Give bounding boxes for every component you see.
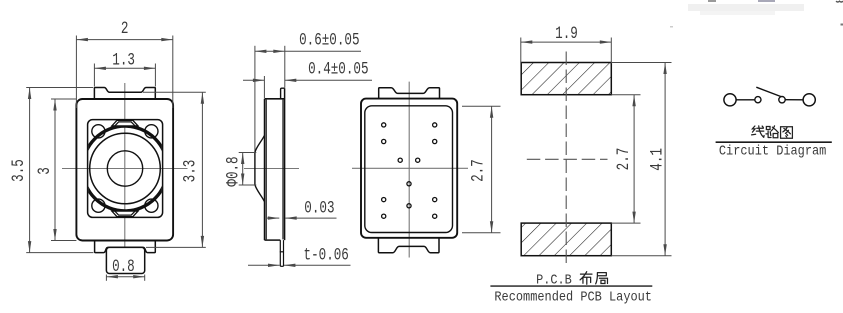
svg-text:Recommended PCB Layout: Recommended PCB Layout bbox=[494, 289, 652, 305]
svg-text:2: 2 bbox=[121, 18, 129, 39]
svg-text:Circuit Diagram: Circuit Diagram bbox=[719, 143, 826, 159]
svg-text:0.6±0.05: 0.6±0.05 bbox=[299, 30, 359, 51]
svg-text:4.1: 4.1 bbox=[646, 148, 667, 171]
svg-text:0.4±0.05: 0.4±0.05 bbox=[308, 58, 368, 79]
svg-text:0.8: 0.8 bbox=[112, 256, 135, 277]
svg-text:2.7: 2.7 bbox=[467, 159, 488, 182]
svg-text:2.7: 2.7 bbox=[613, 148, 634, 171]
svg-text:3: 3 bbox=[34, 167, 55, 175]
svg-text:3.5: 3.5 bbox=[8, 159, 29, 182]
svg-text:t-0.06: t-0.06 bbox=[304, 244, 349, 265]
svg-text:1.9: 1.9 bbox=[555, 23, 578, 44]
svg-text:Φ0.8: Φ0.8 bbox=[222, 156, 243, 186]
svg-text:P.C.B: P.C.B bbox=[536, 272, 572, 288]
svg-text:0.03: 0.03 bbox=[304, 197, 334, 218]
svg-text:3.3: 3.3 bbox=[179, 160, 200, 183]
svg-text:1.3: 1.3 bbox=[112, 49, 135, 70]
